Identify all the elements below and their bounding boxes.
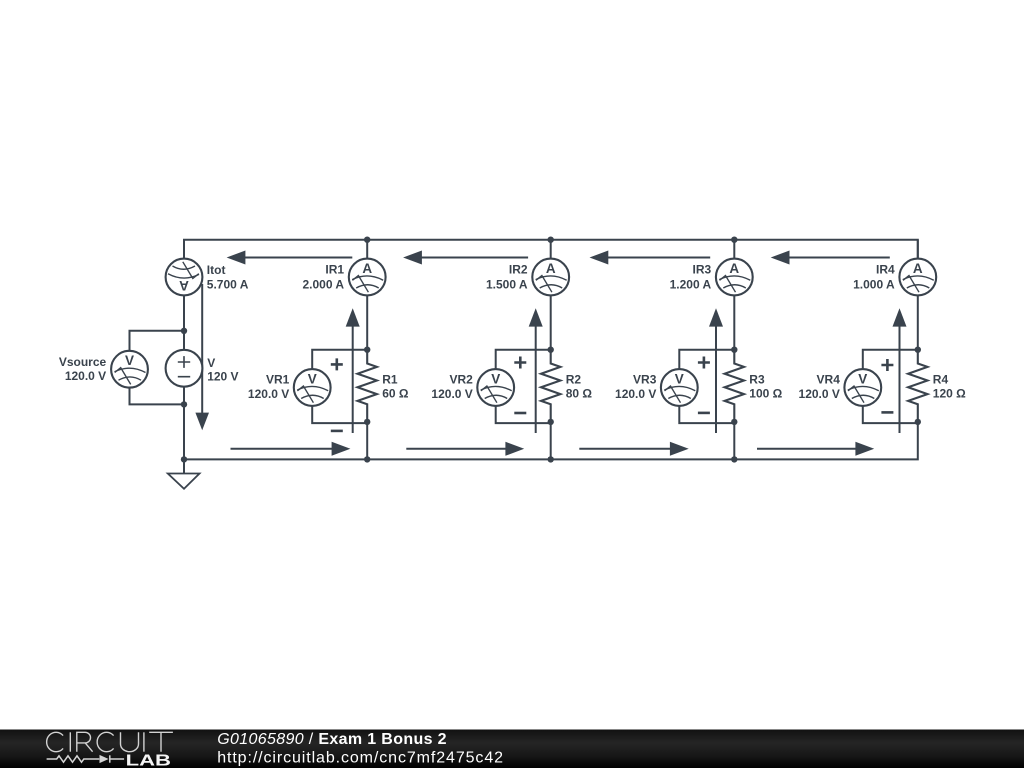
plus sign VR3 [698, 357, 710, 369]
minus sign VR3 [698, 412, 710, 415]
svg-text:IR3: IR3 [693, 263, 712, 277]
svg-text:IR4: IR4 [876, 263, 895, 277]
svg-text:5.700 A: 5.700 A [207, 278, 249, 292]
node R2 top [548, 347, 554, 353]
wire voltmeter VR4 bottom [863, 406, 918, 423]
wire voltmeter VR4 top [863, 350, 918, 370]
svg-text:http://circuitlab.com/cnc7mf24: http://circuitlab.com/cnc7mf2475c42 [217, 750, 504, 767]
voltmeter VR3 [661, 369, 698, 406]
CircuitLab logo resistor-diode squiggle [47, 755, 125, 762]
svg-text:100 Ω: 100 Ω [749, 386, 782, 400]
node top bus at IR3 [731, 237, 737, 243]
svg-text:R1: R1 [382, 372, 398, 386]
svg-text:120.0 V: 120.0 V [615, 387, 656, 401]
wire voltmeter VR3 top [679, 350, 734, 370]
wire R1 to bottom bus [366, 422, 368, 460]
svg-text:G01065890 / Exam 1 Bonus 2: G01065890 / Exam 1 Bonus 2 [217, 731, 447, 748]
svg-text:VR4: VR4 [817, 373, 841, 387]
node R4 bottom [915, 419, 921, 425]
wire IR2 to R2 [550, 295, 552, 350]
wire top bus to IR3 [733, 240, 735, 259]
wire R2 to bottom bus [550, 422, 552, 460]
wire voltmeter VR3 bottom [679, 406, 734, 423]
wire left rail (source to bottom bus) [183, 387, 185, 460]
svg-text:120 V: 120 V [207, 370, 238, 384]
node R3 top [731, 347, 737, 353]
svg-text:1.500 A: 1.500 A [486, 278, 528, 292]
current arrow top segment 4 (left) [787, 257, 890, 259]
current arrow bottom segment 3 (right) [579, 448, 672, 450]
svg-text:LAB: LAB [126, 752, 171, 768]
node R3 bottom [731, 419, 737, 425]
wire IR1 to R1 [366, 295, 368, 350]
plus sign VR4 [881, 359, 893, 371]
current arrow bottom segment 2 (right) [406, 448, 508, 450]
minus sign VR4 [881, 411, 893, 414]
svg-text:IR2: IR2 [509, 263, 528, 277]
node R1 bottom [364, 419, 370, 425]
current arrow IR1 (up) [352, 326, 354, 433]
current arrow top segment 2 (left) [419, 257, 528, 259]
svg-text:VR3: VR3 [633, 373, 657, 387]
wire IR4 to R4 [917, 295, 919, 350]
svg-text:IR1: IR1 [325, 263, 344, 277]
voltmeter Vsource [111, 351, 148, 388]
wire voltmeter VR1 top [312, 350, 367, 370]
minus sign VR1 [331, 430, 343, 433]
resistor R3 [725, 350, 744, 422]
node bottom bus at R2 [548, 456, 554, 462]
ammeter IR4 [899, 259, 936, 296]
CircuitLab logo wordmark CIRCUIT [47, 732, 173, 751]
node ground junction [181, 456, 187, 462]
current arrow IR4 (up) [899, 326, 901, 433]
wire voltmeter VR2 bottom [496, 406, 551, 423]
svg-text:Vsource: Vsource [59, 355, 107, 369]
wire Vsource voltmeter top [130, 331, 185, 351]
svg-text:1.200 A: 1.200 A [670, 278, 712, 292]
node top bus at IR2 [548, 237, 554, 243]
wire top bus [184, 240, 918, 259]
voltmeter VR2 [477, 369, 514, 406]
svg-text:1.000 A: 1.000 A [853, 278, 895, 292]
svg-text:R2: R2 [566, 372, 582, 386]
current arrow IR2 (up) [535, 326, 537, 433]
wire voltmeter VR1 bottom [312, 406, 367, 423]
current arrow bottom segment 1 (right) [231, 448, 335, 450]
wire Vsource voltmeter bottom [130, 387, 185, 404]
wire top bus to IR2 [550, 240, 552, 259]
svg-text:2.000 A: 2.000 A [303, 278, 345, 292]
svg-text:120.0 V: 120.0 V [248, 387, 289, 401]
ammeter IR3 [716, 259, 753, 296]
wire IR3 to R3 [733, 295, 735, 350]
resistor R2 [541, 350, 560, 422]
svg-text:60 Ω: 60 Ω [382, 386, 409, 400]
minus sign VR2 [514, 412, 526, 415]
current arrow top segment 3 (left) [606, 257, 711, 259]
plus sign VR1 [331, 358, 343, 370]
wire bottom bus [184, 422, 918, 460]
wire voltmeter VR2 top [496, 350, 551, 370]
node rail / Vsource voltmeter bottom tap [181, 401, 187, 407]
ammeter IR2 [532, 259, 569, 296]
resistor R1 [358, 350, 377, 422]
wire top bus to IR1 [366, 240, 368, 259]
ground [183, 459, 185, 473]
node bottom bus at R3 [731, 456, 737, 462]
wire top bus to IR4 [917, 240, 919, 259]
node R1 top [364, 347, 370, 353]
ammeter IR1 [349, 259, 386, 296]
wire R3 to bottom bus [733, 422, 735, 460]
voltmeter VR1 [294, 369, 331, 406]
svg-text:R3: R3 [749, 372, 765, 386]
node top bus at IR1 [364, 237, 370, 243]
svg-text:VR2: VR2 [449, 373, 473, 387]
svg-text:120 Ω: 120 Ω [933, 386, 966, 400]
node rail / Vsource voltmeter top tap [181, 328, 187, 334]
wire left rail (Itot to source) [183, 295, 185, 350]
svg-text:V: V [207, 356, 215, 370]
resistor R4 [908, 350, 927, 422]
svg-text:R4: R4 [933, 372, 949, 386]
svg-text:120.0 V: 120.0 V [799, 387, 840, 401]
svg-text:VR1: VR1 [266, 373, 290, 387]
current arrow bottom segment 4 (right) [757, 448, 858, 450]
node R2 bottom [548, 419, 554, 425]
plus sign VR2 [514, 357, 526, 369]
current arrow top segment 1 (left) [243, 257, 353, 259]
voltmeter VR4 [844, 369, 881, 406]
node R4 top [915, 347, 921, 353]
ammeter Itot [166, 259, 203, 296]
node bottom bus at R1 [364, 456, 370, 462]
svg-text:120.0 V: 120.0 V [431, 387, 472, 401]
svg-text:Itot: Itot [207, 263, 226, 277]
svg-text:120.0 V: 120.0 V [65, 369, 106, 383]
current arrow Itot (down) [201, 284, 203, 413]
current arrow IR3 (up) [715, 326, 717, 433]
voltage source V (120 V) [166, 350, 203, 387]
svg-text:80 Ω: 80 Ω [566, 386, 593, 400]
